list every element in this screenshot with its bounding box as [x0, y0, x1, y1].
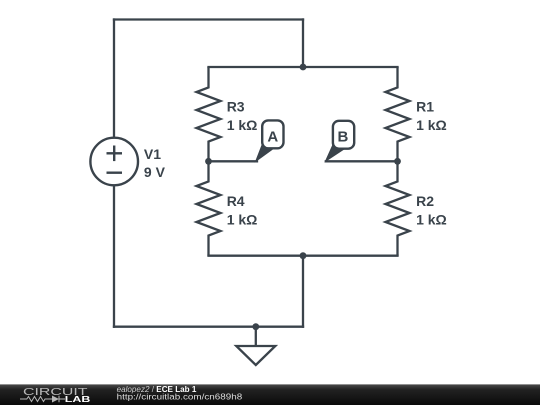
svg-text:V1: V1	[144, 146, 161, 162]
voltage source V1	[90, 138, 138, 186]
node flag A	[256, 120, 284, 161]
wire left vertical top (V1 top to rail)	[113, 20, 115, 138]
resistor R2	[386, 161, 410, 255]
logo resistor-diode symbol	[20, 396, 65, 402]
svg-text:B: B	[337, 129, 348, 146]
svg-text:R3: R3	[227, 98, 245, 114]
resistor R3	[197, 67, 221, 161]
svg-text:9 V: 9 V	[144, 164, 166, 180]
junction node A	[205, 158, 212, 165]
svg-text:1 kΩ: 1 kΩ	[227, 211, 258, 227]
wire bridge top rail	[209, 66, 398, 68]
wire mid vertical bottom (bridge bottom rail to ground rail)	[302, 256, 304, 327]
wire left vertical bottom (V1 bottom to ground rail)	[113, 186, 115, 327]
svg-text:R4: R4	[227, 193, 245, 209]
junction node B	[394, 158, 401, 165]
wire bridge bottom rail	[209, 255, 398, 257]
svg-text:1 kΩ: 1 kΩ	[416, 117, 447, 133]
svg-text:http://circuitlab.com/cn689h8: http://circuitlab.com/cn689h8	[117, 392, 243, 402]
junction bottom rail node	[300, 252, 307, 259]
wire node A stub	[209, 160, 258, 162]
resistor R4	[197, 161, 221, 255]
wire mid vertical top (top rail to bridge top rail)	[302, 20, 304, 68]
svg-text:1 kΩ: 1 kΩ	[227, 117, 258, 133]
wire top rail	[114, 18, 303, 20]
junction ground node	[252, 323, 259, 330]
svg-text:1 kΩ: 1 kΩ	[416, 211, 447, 227]
svg-text:R1: R1	[416, 98, 434, 114]
svg-text:A: A	[267, 129, 278, 146]
wire node B stub	[326, 160, 398, 162]
resistor R1	[386, 67, 410, 161]
svg-text:R2: R2	[416, 193, 434, 209]
junction top rail node	[300, 64, 307, 71]
node flag B	[326, 121, 355, 162]
wire ground rail	[114, 326, 303, 328]
svg-text:LAB: LAB	[65, 395, 91, 404]
ground	[236, 327, 275, 365]
